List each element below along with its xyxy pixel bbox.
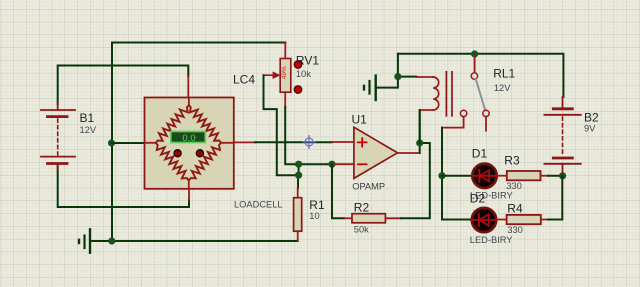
junction dot coil node — [394, 73, 401, 80]
label R4 — [507, 202, 523, 216]
battery B2 — [544, 97, 580, 172]
value 10 — [309, 211, 319, 221]
svg-text:12V: 12V — [494, 83, 511, 93]
svg-text:LOADCELL: LOADCELL — [234, 200, 283, 210]
svg-text:R3: R3 — [504, 154, 520, 168]
svg-text:RV1: RV1 — [296, 54, 319, 68]
label R1 — [309, 198, 325, 212]
svg-text:RL1: RL1 — [493, 66, 515, 80]
label D2 — [470, 192, 486, 206]
wire wiper net — [264, 75, 299, 175]
label U1 — [352, 113, 368, 127]
junction dot at ground rail — [108, 237, 115, 244]
svg-text:49%: 49% — [281, 66, 288, 79]
svg-text:12V: 12V — [80, 125, 97, 135]
wire coil vertical to output node — [419, 110, 421, 143]
svg-text:50k: 50k — [354, 225, 369, 235]
wire R2 branch from minus node — [332, 164, 344, 218]
junction dot output node — [416, 139, 423, 146]
relay RL1 core bars — [446, 72, 452, 116]
value 50k — [354, 225, 369, 235]
D2 anode pin to R4 — [497, 219, 507, 221]
resistor R3 — [507, 171, 548, 180]
loadcell bridge resistor zigzag top-right — [189, 105, 221, 143]
ground (right, near relay) — [364, 76, 376, 100]
wire feed to D2 — [442, 219, 471, 221]
svg-text:B1: B1 — [80, 111, 95, 125]
loadcell terminal ball right — [196, 150, 203, 157]
LED D2 — [472, 208, 497, 232]
RV1 wiper arrow — [264, 71, 281, 79]
loadcell bridge resistor zigzag bottom-left — [156, 143, 189, 181]
label B1 — [80, 111, 95, 125]
resistor R4 — [507, 215, 548, 224]
junction dot left mid — [108, 139, 115, 146]
svg-text:0.0: 0.0 — [182, 133, 195, 144]
battery B1 — [41, 102, 75, 170]
relay contact B — [483, 110, 489, 116]
junction dot LED feed D1 — [438, 172, 445, 179]
relay RL1 coil — [417, 77, 439, 110]
junction dot minus-R2 — [328, 161, 335, 168]
wire ground to coil node — [377, 54, 398, 88]
RV1 terminal ball top — [294, 61, 302, 69]
wire LED feed vertical — [441, 128, 443, 220]
svg-text:10k: 10k — [296, 69, 311, 79]
resistor R1 — [294, 188, 302, 241]
loadcell internal pins — [145, 76, 256, 200]
wire bottom ground rail — [90, 240, 298, 242]
value 12V — [80, 125, 97, 135]
value 330 — [506, 181, 522, 191]
op-amp plus input pin — [332, 141, 354, 143]
wire B1 positive to bridge top — [58, 66, 189, 105]
value 10k — [296, 69, 311, 79]
wire coil node to coil — [398, 76, 417, 78]
wire R4 to B2 node — [548, 176, 562, 220]
svg-text:R4: R4 — [507, 202, 523, 216]
loadcell display 0.0 — [171, 132, 206, 144]
label LC4 — [233, 72, 255, 86]
label B2 — [584, 111, 599, 125]
junction dot B2 negative — [559, 172, 566, 179]
svg-text:10: 10 — [309, 211, 319, 221]
wire minus net across — [299, 163, 332, 165]
relay switch common pin — [474, 56, 476, 73]
svg-text:LC4: LC4 — [233, 72, 255, 86]
label RL1 — [493, 66, 515, 80]
svg-text:330: 330 — [507, 225, 523, 235]
wire B1 negative to bridge bottom — [58, 165, 189, 208]
label OPAMP — [352, 182, 385, 192]
ground (left) — [79, 229, 90, 252]
LED D1 — [472, 164, 497, 188]
label RV1 — [296, 54, 319, 68]
potentiometer RV1 — [280, 43, 291, 108]
wire R2 right to output node — [401, 143, 430, 218]
relay switch common contact — [471, 73, 477, 79]
wire down to R1 — [297, 175, 299, 188]
svg-text:LED-BIRY: LED-BIRY — [470, 235, 513, 245]
loadcell bridge LC4 box — [145, 98, 234, 189]
svg-text:D2: D2 — [470, 192, 486, 206]
junction dot switch common — [471, 50, 478, 57]
wire minus net from RV1 bottom — [285, 107, 298, 164]
label LED-BIRY of D2 — [470, 235, 513, 245]
wire ground net: RV1 top to left vertical — [112, 42, 285, 44]
label R3 — [504, 154, 520, 168]
svg-text:OPAMP: OPAMP — [352, 182, 385, 192]
value 9V — [584, 124, 596, 134]
svg-text:R2: R2 — [354, 200, 370, 214]
op-amp minus input pin — [332, 163, 354, 165]
wire link between dots — [298, 164, 300, 175]
wire top rail to B2 — [398, 54, 564, 97]
value 12V — [494, 83, 511, 93]
svg-text:9V: 9V — [584, 124, 596, 134]
wire R3 to B2 node — [548, 175, 563, 177]
junction dot wiper-R1 — [295, 172, 302, 179]
relay contact A — [460, 110, 466, 116]
junction dot minus-wiper — [295, 161, 302, 168]
label LED-BIRY of D1 — [470, 190, 513, 200]
svg-text:R1: R1 — [309, 198, 325, 212]
loadcell bridge resistor zigzag bottom-right — [189, 143, 221, 181]
svg-text:330: 330 — [506, 181, 522, 191]
svg-text:B2: B2 — [584, 111, 599, 125]
RV1 terminal ball bottom — [294, 86, 302, 94]
relay contact A pin — [444, 117, 464, 128]
label R2 — [354, 200, 370, 214]
wire main to op-amp plus input — [255, 141, 332, 143]
wire left vertical ground bus — [111, 43, 113, 242]
svg-text:D1: D1 — [472, 147, 488, 161]
D1 anode pin to R3 — [498, 175, 507, 177]
wire junction to bridge left — [112, 142, 147, 144]
value 330 — [507, 225, 523, 235]
resistor R2 — [344, 214, 401, 223]
op-amp output pin — [398, 152, 420, 154]
svg-text:U1: U1 — [352, 113, 368, 127]
relay contact B pin — [485, 117, 487, 131]
label LOADCELL — [234, 200, 283, 210]
op-amp U1 — [354, 127, 398, 178]
wire output vertical — [419, 110, 421, 153]
loadcell bridge resistor zigzag top-left — [156, 105, 189, 143]
label D1 — [472, 147, 488, 161]
wire feed to D1 — [442, 175, 472, 177]
loadcell terminal ball left — [174, 150, 181, 157]
node origin marker — [303, 136, 316, 149]
relay switch lever — [476, 79, 485, 110]
